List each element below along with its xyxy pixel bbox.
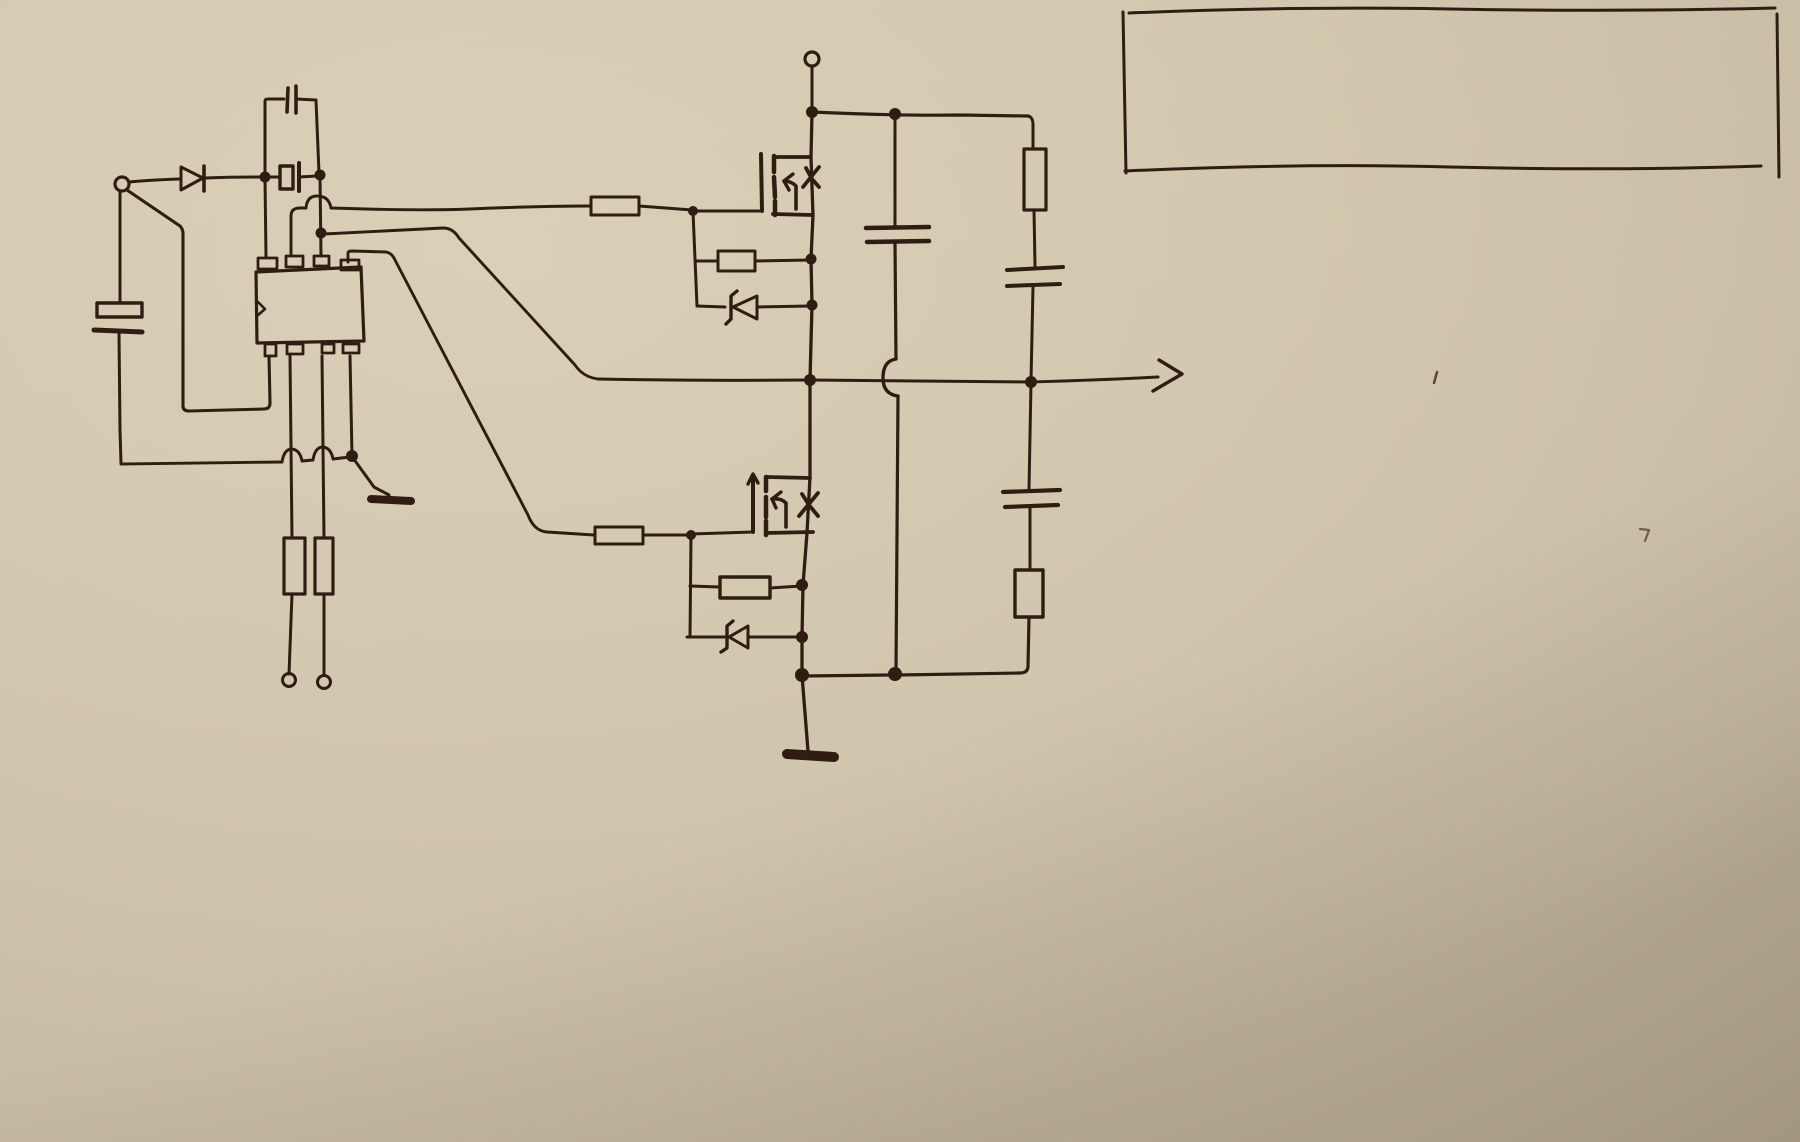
resistor R3 upper xyxy=(718,251,755,271)
IC pin 5 xyxy=(265,344,276,356)
resistor R2 upper xyxy=(591,197,639,215)
wire IC pin2 up and right to R2 upper (with hop) xyxy=(291,196,590,256)
node C4-bottom junction xyxy=(888,667,902,681)
ground main xyxy=(787,754,834,757)
wire to D2 upper xyxy=(697,306,725,307)
wire R2 upper to gate node xyxy=(639,206,692,210)
node top-rail-left junction xyxy=(806,106,818,118)
wire top rail xyxy=(812,112,1028,116)
wire R1 left to terminal xyxy=(289,594,292,674)
diode D1 xyxy=(181,166,204,191)
wire to R3 lower xyxy=(690,586,720,587)
node source-bottom junction xyxy=(795,668,809,682)
wire to R3 upper xyxy=(696,260,718,263)
wire COM to ground xyxy=(353,458,389,495)
wire R1 right to terminal xyxy=(323,594,326,675)
diode D2 upper (zener) xyxy=(726,291,810,324)
ground IC xyxy=(371,499,411,501)
node phase-main junction xyxy=(804,374,816,386)
stray mark apostrophe xyxy=(1434,372,1437,383)
transistor Q2 (lower MOSFET) xyxy=(748,474,818,535)
node gate-lower junction xyxy=(686,530,696,540)
stray mark seven xyxy=(1640,529,1649,541)
+18V terminal xyxy=(115,177,129,191)
node C junction xyxy=(316,228,327,239)
resistor R2 lower xyxy=(595,527,643,544)
node phase-C5 junction xyxy=(1025,376,1037,388)
wire R3 upper to drain rail xyxy=(755,260,810,261)
capacitor C3 with branch wires xyxy=(265,86,319,176)
resistor R4 lower xyxy=(1015,570,1043,617)
wire R3 lower to main xyxy=(770,586,801,588)
terminal P5 xyxy=(283,674,296,687)
wire COM horizontal line (with hops) xyxy=(121,447,350,464)
IC pin 1 xyxy=(258,258,277,269)
capacitor C1 xyxy=(94,191,142,463)
node R3-lower junction xyxy=(796,579,808,591)
wire IC pin7 down to R1 right xyxy=(322,356,324,538)
wire gate node to Q1 gate xyxy=(693,210,761,213)
IC pin 2 xyxy=(286,256,303,267)
wire R4 lower down and left along bottom xyxy=(803,617,1029,676)
IC pin 8 xyxy=(343,344,359,353)
transistor Q1 (upper MOSFET) xyxy=(761,154,819,215)
wire R4 upper to C5 upper xyxy=(1034,210,1035,266)
node top-rail-C4 junction xyxy=(889,108,901,120)
wire top rail corner to R4 upper xyxy=(1028,116,1033,149)
wire gate lead Q2 xyxy=(691,532,753,534)
node D2-upper junction xyxy=(807,300,818,311)
title box frame xyxy=(1123,8,1779,177)
IC pin 3 xyxy=(314,256,329,266)
wire +18V diagonal to pin5 loop xyxy=(127,190,270,411)
wire to D2 lower xyxy=(687,636,725,639)
capacitor C5 lower xyxy=(1003,383,1060,570)
wire IC pin4 diagonal to R2 lower xyxy=(348,251,594,535)
resistor R1 left xyxy=(284,538,305,594)
wire IC pin8 down to COM xyxy=(350,356,352,455)
IC U1 IR2104 body xyxy=(256,267,364,343)
IC pin 4 xyxy=(341,260,359,270)
wire vertical from gate node down through R3/D2 upper xyxy=(693,212,697,306)
IC pin 6 xyxy=(287,344,303,354)
capacitor C2 xyxy=(266,163,317,191)
resistor R4 upper xyxy=(1024,149,1046,210)
wire IC pin6 down to R1 left xyxy=(290,356,292,538)
wire node B down to IC pin3 xyxy=(320,177,321,256)
arrow to BLDC phase xyxy=(1153,360,1182,391)
resistor R3 lower xyxy=(720,577,770,598)
capacitor C5 upper xyxy=(1007,267,1063,381)
wire node C to phase line (diagonal) xyxy=(324,228,598,379)
+400V terminal xyxy=(805,52,819,66)
diode D2 lower (zener) xyxy=(721,621,801,652)
wire node A down to IC pin1 xyxy=(265,178,266,257)
capacitor C4 xyxy=(866,116,929,672)
node COM junction xyxy=(346,450,358,462)
resistor R1 right xyxy=(315,538,333,594)
wire R2 lower to gate node xyxy=(643,534,690,537)
wire vertical gate-lower down xyxy=(690,536,691,637)
node D2-lower junction xyxy=(796,631,808,643)
IC pin 7 xyxy=(322,344,334,353)
node A junction xyxy=(260,172,271,183)
main half-bridge vertical wire xyxy=(802,113,813,751)
wire +400V down xyxy=(811,66,814,111)
phase line horizontal xyxy=(598,377,1158,382)
wire D1 to node A xyxy=(205,177,263,178)
node R3-upper junction xyxy=(806,254,817,265)
node gate-upper junction xyxy=(688,206,698,216)
terminal P11 xyxy=(318,676,331,689)
wire +18V to D1 xyxy=(129,179,179,182)
node B junction xyxy=(315,170,326,181)
